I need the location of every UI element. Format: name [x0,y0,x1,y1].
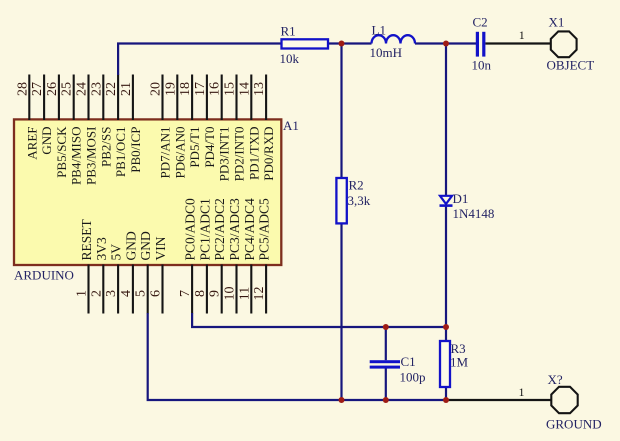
svg-text:PC3/ADC3: PC3/ADC3 [227,198,242,261]
svg-text:26: 26 [45,82,60,96]
node junction at 446,400 [443,397,449,403]
svg-text:18: 18 [178,82,193,96]
svg-text:24: 24 [75,82,90,96]
resistor R2 [336,178,346,223]
capacitor C1 [370,360,400,368]
wire ground rail to X? [446,399,551,401]
svg-text:1N4148: 1N4148 [453,206,495,221]
svg-text:3V3: 3V3 [94,237,109,260]
pin 18 stub [191,75,193,121]
svg-text:5: 5 [134,290,149,297]
svg-text:AREF: AREF [24,127,39,160]
svg-text:PD1/TXD: PD1/TXD [246,127,261,180]
node junction at 385.8,400 [383,397,389,403]
svg-text:GND: GND [123,231,138,260]
pin 23 stub [102,75,104,121]
resistor R1 [282,39,329,48]
svg-text:5V: 5V [109,244,124,261]
pin 5 stub [147,265,149,314]
svg-text:3,3k: 3,3k [348,193,371,208]
pin 19 stub [176,75,178,121]
svg-text:PB4/MISO: PB4/MISO [69,127,84,186]
svg-text:VIN: VIN [153,236,168,260]
pin 10 stub [235,265,237,314]
svg-text:PD0/RXD: PD0/RXD [261,127,276,181]
svg-text:2: 2 [89,290,104,297]
node junction at 341.5,400 [339,397,345,403]
connector X1 octagon [551,31,577,57]
wire pin22 up to R1 [118,44,281,76]
pin 4 stub [132,265,134,314]
svg-text:13: 13 [252,82,267,96]
diode D1 [440,196,453,206]
node junction at 446,327 [443,324,449,330]
svg-text:7: 7 [178,290,193,297]
svg-text:PC2/ADC2: PC2/ADC2 [212,198,227,260]
svg-text:4: 4 [119,290,134,297]
capacitor C2 [476,32,486,57]
svg-text:28: 28 [15,82,30,96]
wire L1 to C2 [415,42,476,44]
wire pin5 ground rail [148,313,446,400]
resistor R3 [440,341,450,387]
svg-text:1M: 1M [450,355,469,370]
svg-text:RESET: RESET [79,218,94,260]
pin 17 stub [206,75,208,121]
pin 11 stub [250,265,252,314]
wire C1 bottom lead [385,369,387,401]
node junction at 446,43.5 [443,41,449,47]
svg-text:A1: A1 [283,118,299,133]
svg-text:PB1/OC1: PB1/OC1 [113,127,128,178]
svg-text:12: 12 [252,287,267,301]
svg-text:19: 19 [163,82,178,96]
svg-text:22: 22 [104,82,119,96]
pin 16 stub [221,75,223,121]
wire node B down to D1 [445,44,447,196]
svg-text:C2: C2 [473,14,488,29]
svg-text:GND: GND [39,127,54,155]
svg-text:11: 11 [237,287,252,300]
wire R2 bottom to ground rail [340,223,342,400]
node junction at 341.5,43.5 [339,41,345,47]
svg-text:PB2/SS: PB2/SS [98,127,113,167]
svg-text:X?: X? [548,372,563,387]
wire R3 top lead [445,327,447,341]
svg-text:OBJECT: OBJECT [547,58,595,73]
svg-text:16: 16 [208,82,223,96]
pin 7 stub [191,265,193,314]
wire pin7 to node C [192,313,446,327]
svg-text:PB3/MOSI: PB3/MOSI [84,127,99,186]
svg-text:R2: R2 [349,178,364,193]
wire C1 top lead [385,327,387,360]
node junction at 385.8,327 [383,324,389,330]
svg-text:8: 8 [193,290,208,297]
svg-text:10k: 10k [280,51,300,66]
connector X? octagon [551,387,577,413]
svg-text:R1: R1 [281,23,296,38]
svg-text:25: 25 [60,82,75,96]
svg-text:15: 15 [223,82,238,96]
pin 13 stub [265,75,267,121]
pin 21 stub [132,75,134,121]
svg-text:PB5/SCK: PB5/SCK [54,126,69,178]
svg-text:14: 14 [237,82,252,96]
svg-text:PD3/INT1: PD3/INT1 [217,127,232,182]
svg-text:1: 1 [519,385,525,399]
svg-text:100p: 100p [400,370,426,385]
svg-text:ARDUINO: ARDUINO [14,268,74,283]
inductor L1 [372,35,416,43]
pin 22 stub [117,75,119,121]
svg-text:X1: X1 [549,14,565,29]
IC A1 ARDUINO body [14,119,281,265]
wire D1 to node C [445,206,447,328]
svg-text:C1: C1 [401,354,416,369]
wire node A down through R2 [340,44,342,179]
svg-text:PD4/T0: PD4/T0 [202,127,217,168]
pin 24 stub [87,75,89,121]
pin 15 stub [235,75,237,121]
svg-text:10mH: 10mH [370,45,403,60]
pin 25 stub [73,75,75,121]
pin 3 stub [117,265,119,314]
svg-text:PC1/ADC1: PC1/ADC1 [197,198,212,260]
pin 20 stub [161,75,163,121]
svg-text:21: 21 [119,82,134,96]
svg-text:1: 1 [519,28,525,42]
wire R3 bottom lead [445,387,447,400]
svg-text:PD7/AN1: PD7/AN1 [158,127,173,179]
wire R1 to L1 [328,42,372,44]
svg-text:17: 17 [193,82,208,96]
svg-text:D1: D1 [453,191,469,206]
svg-text:10: 10 [223,287,238,301]
svg-text:9: 9 [208,290,223,297]
svg-text:GND: GND [138,231,153,260]
svg-text:PC4/ADC4: PC4/ADC4 [242,198,257,261]
svg-text:PB0/ICP: PB0/ICP [128,127,143,173]
svg-text:23: 23 [89,82,104,96]
svg-text:1: 1 [75,290,90,297]
pin 26 stub [58,75,60,121]
svg-text:PD5/T1: PD5/T1 [187,127,202,168]
pin 9 stub [221,265,223,314]
svg-text:6: 6 [149,290,164,297]
pin 27 stub [43,75,45,121]
svg-text:20: 20 [149,82,164,96]
svg-text:L1: L1 [372,23,386,38]
svg-text:PC5/ADC5: PC5/ADC5 [257,198,272,261]
svg-text:27: 27 [30,82,45,96]
pin 1 stub [87,265,89,314]
pin 12 stub [265,265,267,314]
svg-text:10n: 10n [472,58,492,73]
wire C2 to X1 [485,42,550,44]
pin 6 stub [161,265,163,314]
pin 2 stub [102,265,104,314]
svg-text:3: 3 [104,290,119,297]
pin 14 stub [250,75,252,121]
svg-text:GROUND: GROUND [546,417,602,432]
svg-text:PD2/INT0: PD2/INT0 [232,127,247,182]
svg-text:PD6/AN0: PD6/AN0 [172,127,187,179]
pin 8 stub [206,265,208,314]
svg-text:PC0/ADC0: PC0/ADC0 [183,198,198,261]
pin 28 stub [28,75,30,121]
